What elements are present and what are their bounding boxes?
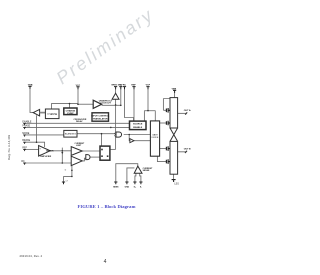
wire latch output	[110, 148, 116, 150]
footer doc number	[20, 254, 43, 258]
wire charge pump riser	[69, 104, 71, 108]
wire comparator C2 out to gate	[82, 158, 86, 161]
svg-text:S+: S+	[134, 187, 137, 189]
svg-text:TRANSLATOR: TRANSLATOR	[93, 118, 108, 121]
pin VDD	[119, 84, 123, 89]
pin REF1	[131, 84, 136, 89]
transistor gate Q4	[166, 159, 170, 164]
wire current source branch	[61, 148, 63, 163]
pin SENSE	[113, 182, 119, 189]
pin VBB1	[28, 84, 33, 88]
current source arrow	[61, 152, 63, 154]
output bridge upper pair Q1 Q2	[170, 98, 178, 128]
svg-text:SENSE: SENSE	[143, 170, 150, 172]
wire sense amp input left	[127, 168, 134, 182]
op-amp U2 UVLO	[93, 100, 101, 108]
watermark Preliminary	[0, 0, 213, 120]
svg-text:SOURCE: SOURCE	[133, 124, 143, 126]
wire gate drive to gate4	[157, 156, 166, 161]
svg-text:OUT A: OUT A	[184, 109, 191, 112]
wire gate G2 out to latch	[90, 156, 100, 158]
heavy gray rails	[78, 104, 155, 110]
wire gate drive to gate2	[160, 122, 167, 124]
wire buffer T4 out to gate drive	[134, 140, 150, 142]
box source enable U5	[130, 121, 147, 130]
wire sense amp leg A	[135, 173, 136, 181]
wire input RC long	[26, 162, 71, 164]
box trim	[45, 109, 59, 119]
svg-text:LOCKOUT: LOCKOUT	[100, 103, 111, 105]
wire input REF to error amp	[26, 148, 38, 150]
wire VCP pin down	[147, 89, 149, 111]
wire REF pin down	[133, 89, 135, 121]
pin ENABLE	[22, 120, 32, 125]
pin REF2	[22, 147, 27, 151]
wire input ENABLE	[26, 122, 129, 124]
wire sense amp output left	[116, 164, 138, 182]
svg-text:AMPLIFIER: AMPLIFIER	[40, 155, 51, 158]
svg-text:SENS: SENS	[113, 187, 119, 189]
svg-text:CT: CT	[66, 180, 68, 182]
wire charge pump rail	[144, 111, 155, 122]
pin OUTA	[184, 109, 191, 115]
wire buffer T1 feedback vertical	[36, 115, 38, 142]
wire input BRAKE to error amp	[26, 142, 44, 147]
pin BRAKE	[22, 139, 30, 144]
wire gray charge rail	[144, 110, 155, 112]
box charge pump U3	[64, 108, 77, 115]
svg-text:BLANKING: BLANKING	[65, 133, 76, 136]
pin MODE	[22, 133, 29, 137]
svg-text:PUMP: PUMP	[67, 113, 74, 115]
svg-text:INPUT CONTROL: INPUT CONTROL	[91, 115, 110, 117]
wire bridge to ground	[173, 174, 175, 179]
pin VCP	[146, 84, 151, 89]
wire C2 lower leg	[64, 166, 72, 182]
buffer T4	[130, 139, 134, 143]
wire amp U2 output	[102, 104, 121, 106]
zener D1	[112, 93, 119, 99]
transistor gate Q3	[166, 146, 170, 151]
wire long vertical net VREG	[115, 99, 117, 149]
pin OUTB	[184, 148, 191, 153]
output bridge lower pair Q3 Q4	[170, 141, 178, 174]
op-amp error amp U8	[39, 146, 51, 157]
wire gate drive to gate3	[160, 148, 167, 150]
sense amp T3	[134, 166, 142, 173]
latch U9	[100, 146, 110, 160]
wire VBB1 pin to buffer	[30, 89, 33, 113]
wire input PHASE	[26, 126, 129, 128]
wire gray bus under amp	[78, 103, 93, 105]
pin SM	[139, 182, 142, 189]
wire sense amp leg B	[140, 173, 141, 181]
svg-text:DELAY: DELAY	[76, 120, 83, 123]
box input logic U4	[92, 113, 109, 121]
pin VBB2	[172, 88, 177, 93]
svg-text:V SENSE: V SENSE	[47, 114, 57, 116]
wire high side gate feed	[163, 99, 170, 111]
wire VCC pin down to bus	[78, 89, 93, 104]
wire error amp output	[50, 150, 71, 152]
side vertical drawing number	[7, 122, 47, 126]
figure caption	[0, 204, 213, 209]
svg-text:OUT B: OUT B	[184, 148, 191, 150]
wire OUTB stub	[178, 151, 186, 153]
svg-text:ERROR: ERROR	[46, 151, 54, 153]
pin VCC	[76, 85, 81, 89]
wire input MODE to blanking	[26, 134, 64, 136]
svg-text:ENABLE: ENABLE	[133, 126, 143, 129]
pin VREG	[111, 84, 123, 89]
wire T1 to trim box	[40, 112, 46, 114]
svg-text:LSS: LSS	[174, 183, 179, 185]
pin GND1	[125, 182, 130, 189]
wire RC pin down	[125, 89, 134, 121]
svg-text:LIMIT: LIMIT	[76, 145, 82, 147]
pin RC2	[21, 161, 26, 165]
svg-text:tb: tb	[65, 168, 66, 171]
box blanking U7	[64, 130, 77, 137]
buffer T1	[33, 109, 39, 116]
junction dots	[36, 103, 149, 177]
wire bus from trim riser to VCC junction	[52, 104, 79, 109]
wire VREG pin to zener	[115, 89, 117, 93]
comparator C1	[71, 147, 82, 156]
comparator C2	[71, 156, 82, 165]
wire gate G1 out to buffer	[124, 135, 151, 141]
wire latch top riser	[101, 134, 103, 146]
wire comparator C1 out to latch	[82, 150, 100, 152]
bridge crossover wires	[170, 128, 178, 141]
wire blanking to gate G1	[77, 133, 116, 135]
svg-text:DRIVE: DRIVE	[152, 137, 159, 139]
svg-text:S-: S-	[140, 187, 142, 189]
box gate drive U6	[150, 121, 159, 156]
svg-text:GND: GND	[125, 187, 130, 189]
transistor gate Q1	[166, 108, 170, 113]
pin RT bottom	[62, 180, 68, 184]
wire OUTA stub	[178, 112, 187, 114]
gate G2	[86, 155, 90, 160]
gate G1	[116, 132, 122, 137]
pin LSS ground	[172, 180, 180, 186]
wire VDD pin down	[120, 89, 122, 105]
wire VBB2 pin down	[174, 93, 176, 98]
transistor gate Q2	[166, 121, 170, 126]
pin PHASE	[22, 124, 30, 129]
pin RC1	[123, 84, 127, 89]
page number	[104, 259, 107, 265]
pin SP	[133, 182, 137, 189]
